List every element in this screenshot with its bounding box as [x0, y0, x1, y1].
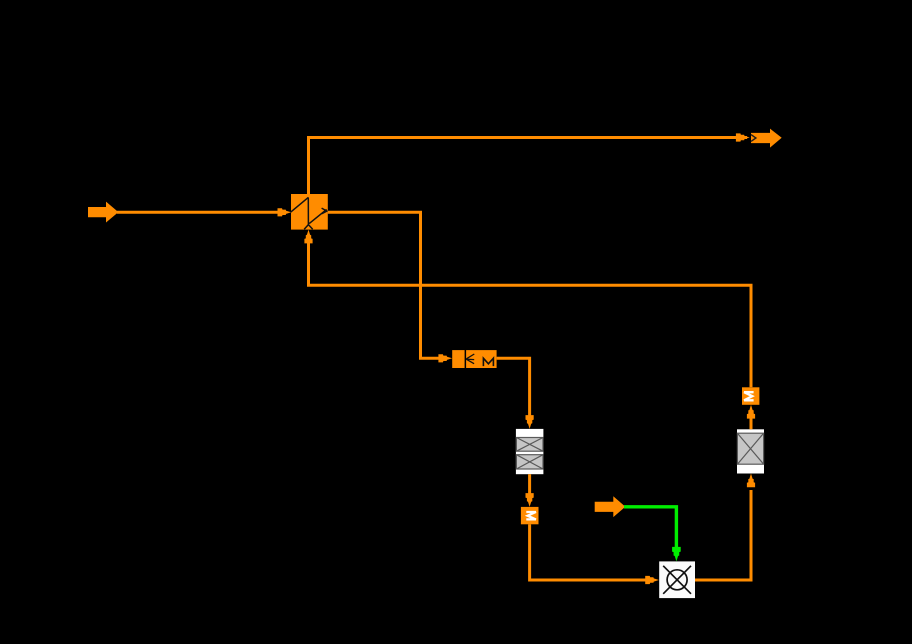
arrowhead into column C2 bottom	[747, 474, 755, 488]
wire M-box M1 down and right to mixer	[530, 524, 647, 580]
wire column C2 top to M-box M2	[750, 418, 753, 429]
feed stream arrow 1 (left inlet)	[88, 202, 118, 223]
arrowhead into M-box M2	[747, 405, 755, 419]
green energy wire to mixer	[624, 507, 676, 549]
wire valve outlet down to column C1	[497, 358, 530, 416]
recycle wire M-box M2 up, left, and down into heat exchanger bottom	[309, 243, 752, 387]
feed stream arrow 2 (energy inlet)	[595, 496, 626, 517]
wire heat exchanger right outlet down to valve	[328, 212, 447, 358]
product stream arrow (top right outlet)	[751, 129, 782, 148]
arrowhead before product arrow	[736, 133, 750, 141]
arrowhead into column C1 top	[526, 415, 534, 429]
column C2 (one packed section)	[737, 429, 764, 473]
M-box M2 (motor block, flow up)	[742, 387, 759, 405]
arrowhead into mixer left	[645, 576, 659, 584]
heat exchanger E1	[291, 194, 328, 230]
mixer MIX1	[659, 561, 695, 598]
column C1 (two packed sections)	[516, 429, 544, 474]
green arrowhead into mixer top	[672, 547, 681, 561]
arrowhead into heat exchanger bottom	[304, 230, 312, 244]
wire mixer outlet right and up to column C2	[695, 490, 751, 580]
valve / expander V1 with motor	[452, 350, 496, 368]
arrowhead into valve	[438, 354, 452, 362]
wire heat exchanger top outlet to product arrow	[309, 138, 748, 195]
arrowhead into heat exchanger left	[278, 208, 292, 216]
wire feed to heat exchanger	[117, 211, 286, 214]
M-box M1 (motor block, flow down)	[521, 507, 539, 524]
wire column C1 bottom to M-box	[528, 474, 531, 494]
arrowhead into M-box M1	[526, 493, 534, 507]
